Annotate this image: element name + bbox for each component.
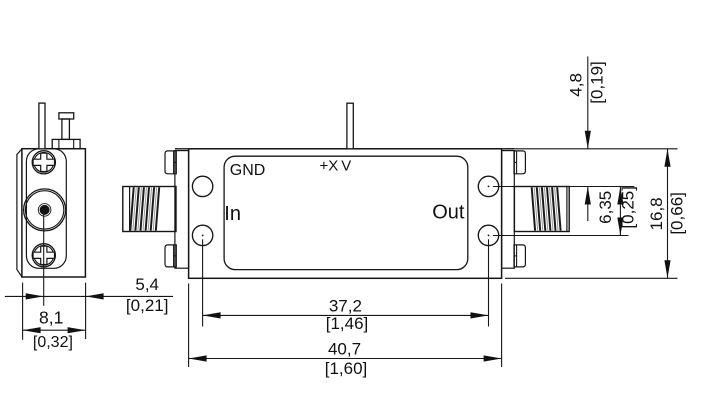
- svg-text:[0,32]: [0,32]: [33, 334, 73, 351]
- extension line hole-left: [202, 239, 204, 326]
- feedthrough capacitor (end view): [52, 113, 80, 149]
- hole top-left: [192, 176, 212, 196]
- SMA connector Out (right): [514, 187, 569, 232]
- left end plate: [175, 151, 189, 269]
- svg-text:In: In: [224, 203, 241, 225]
- svg-text:+X V: +X V: [320, 158, 352, 175]
- dimension 40,7 line: [189, 355, 502, 361]
- dimension 16,8 line: [664, 149, 670, 278]
- flange screw head (top-right): [514, 151, 525, 174]
- extension line body top: [505, 148, 678, 150]
- dimension 5,4 line: [5, 293, 173, 299]
- centerline: [43, 210, 45, 306]
- extension line body-left: [188, 284, 190, 368]
- hole bottom-left: [192, 225, 212, 245]
- extension line body bottom: [505, 277, 678, 279]
- svg-text:[1,46]: [1,46]: [326, 314, 369, 333]
- body (top view): [189, 149, 502, 278]
- svg-text:40,7: 40,7: [328, 339, 361, 358]
- connector flange (end view): [26, 149, 66, 268]
- svg-text:16,8: 16,8: [647, 197, 666, 230]
- extension line hole-right: [488, 239, 490, 326]
- SMA connector In (left): [123, 187, 176, 232]
- dimension 8,1 line: [23, 327, 86, 333]
- coax connector (end view): [24, 189, 66, 231]
- supply pin (end view): [39, 103, 45, 149]
- extension line connector bottom: [493, 235, 629, 237]
- svg-text:[0,21]: [0,21]: [126, 296, 169, 315]
- svg-text:[0,19]: [0,19]: [587, 61, 606, 104]
- svg-text:[1,60]: [1,60]: [325, 359, 368, 378]
- screw S2 (bottom, phillips): [32, 244, 55, 267]
- right end plate: [502, 151, 515, 269]
- svg-text:[0,25]: [0,25]: [619, 186, 638, 229]
- body (end view): [22, 149, 86, 277]
- extension line body-right: [501, 284, 503, 368]
- hole top-right: [478, 176, 498, 196]
- svg-text:6,35: 6,35: [596, 191, 615, 224]
- screw S1 (top, phillips): [32, 151, 55, 174]
- svg-text:5,4: 5,4: [135, 275, 159, 294]
- svg-text:[0,66]: [0,66]: [668, 192, 687, 235]
- top edge over plates: [175, 148, 514, 150]
- svg-text:8,1: 8,1: [39, 308, 63, 328]
- svg-text:37,2: 37,2: [329, 296, 362, 315]
- dimension 37,2 line: [203, 312, 489, 318]
- svg-text:4,8: 4,8: [566, 73, 585, 97]
- body left chamfer facet: [17, 149, 22, 277]
- flange screw head (bottom-left): [165, 245, 176, 267]
- dimension 4,8 line: [585, 57, 591, 222]
- extension line left (8,1): [22, 283, 24, 340]
- svg-text:GND: GND: [230, 162, 266, 179]
- dimension 6,35 line: [617, 187, 623, 236]
- hole bottom-right: [478, 225, 498, 245]
- flange screw head (top-left): [165, 151, 176, 174]
- extension line connector top: [493, 186, 634, 188]
- extension line right (8,1 / 5,4): [85, 283, 87, 339]
- lid: [224, 156, 468, 269]
- svg-text:Out: Out: [432, 201, 465, 223]
- supply pin (top view): [347, 103, 353, 149]
- flange screw head (bottom-right): [514, 245, 525, 267]
